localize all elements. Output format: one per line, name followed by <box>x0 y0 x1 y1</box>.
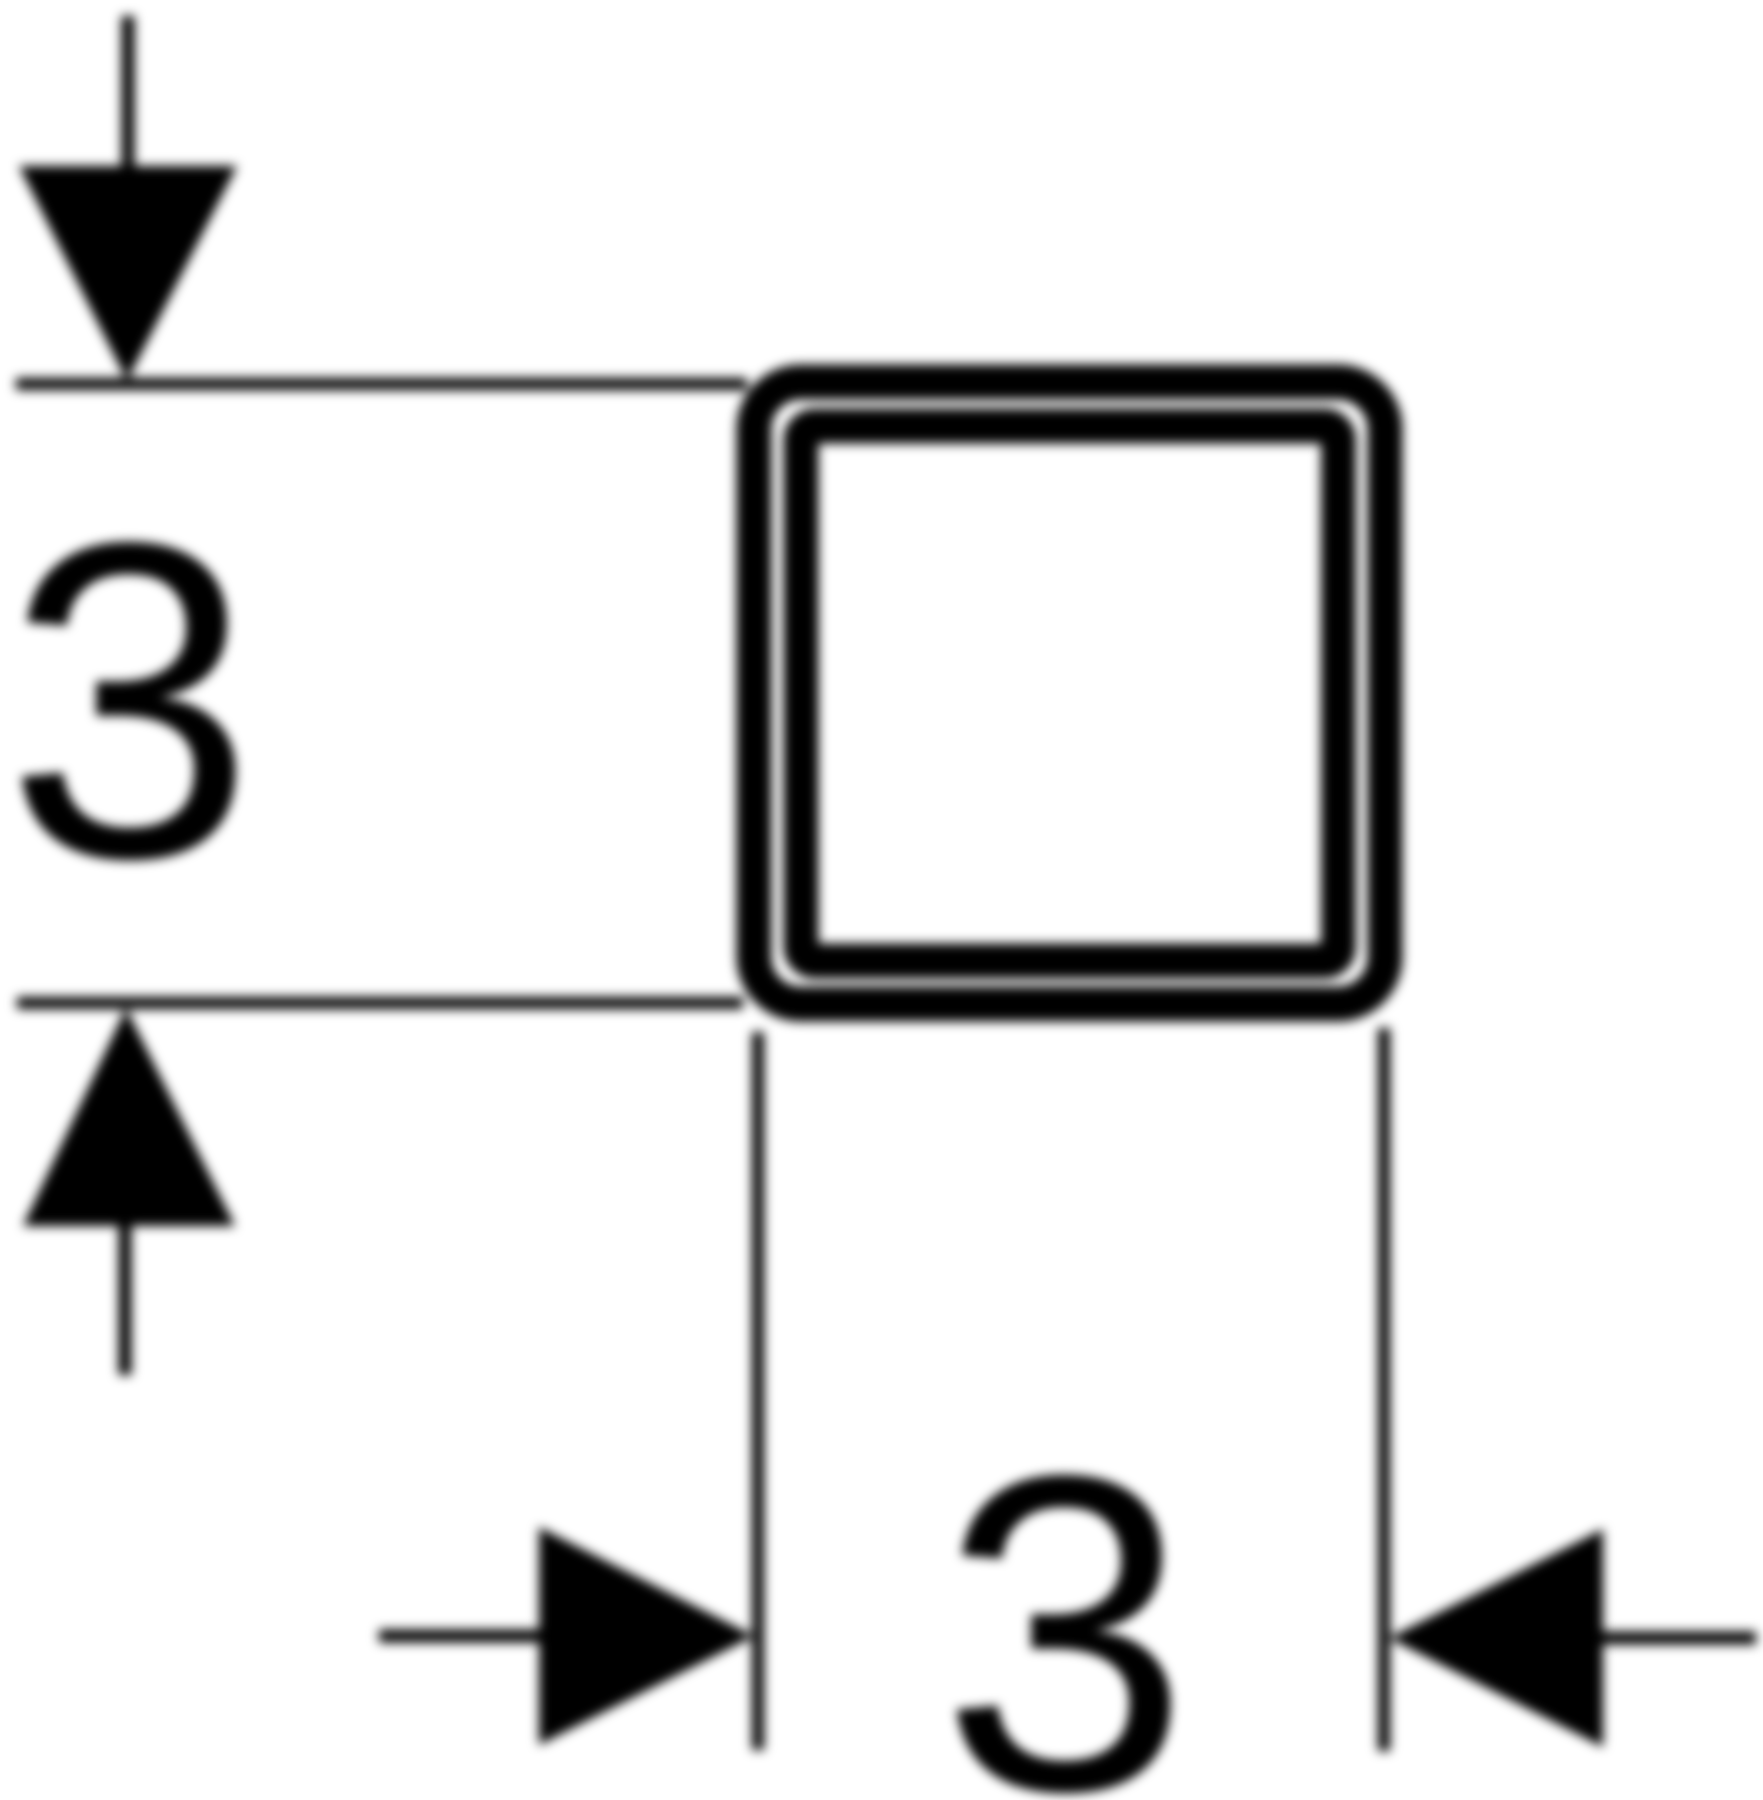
square tube inner wall <box>801 426 1339 961</box>
svg-text:3: 3 <box>940 1383 1190 1800</box>
dimension extension line: top edge of tube <box>16 378 747 390</box>
arrow up (height dimension, lower) <box>23 1008 235 1375</box>
dimension extension line: left edge of tube <box>752 1032 764 1750</box>
arrow down (height dimension, upper) <box>19 16 237 381</box>
svg-text:3: 3 <box>5 450 255 952</box>
dimension extension line: right edge of tube <box>1378 1028 1390 1751</box>
dimension extension line: bottom edge of tube <box>17 997 743 1009</box>
square tube outer wall <box>754 382 1385 1004</box>
arrow left (width dimension, right) <box>1389 1529 1756 1747</box>
arrow right (width dimension, left) <box>379 1527 754 1745</box>
